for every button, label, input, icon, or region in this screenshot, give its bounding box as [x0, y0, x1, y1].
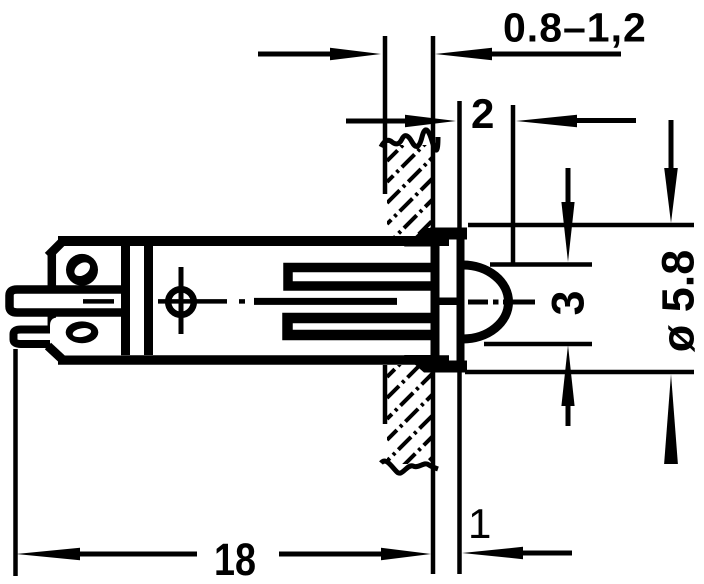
svg-text:2: 2 [471, 90, 494, 137]
svg-text:3: 3 [543, 290, 594, 315]
svg-text:ø 5.8: ø 5.8 [653, 250, 704, 353]
svg-text:0.8–1,2: 0.8–1,2 [503, 5, 647, 51]
svg-text:18: 18 [214, 534, 256, 584]
svg-text:1: 1 [468, 500, 491, 547]
